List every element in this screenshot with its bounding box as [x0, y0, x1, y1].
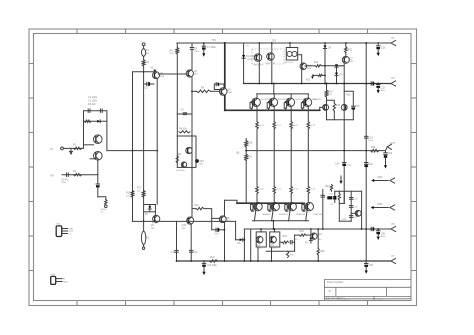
svg-text:CN2: CN2 — [56, 223, 61, 225]
resistor R5 to terminal — [105, 200, 107, 205]
wire output line — [246, 150, 386, 152]
junction dots -V rail — [176, 260, 178, 262]
transistor Q5 input current source — [153, 72, 160, 79]
junction dots rail2 — [258, 83, 260, 85]
svg-text:2SC: 2SC — [350, 61, 355, 63]
svg-text:C11: C11 — [171, 252, 176, 254]
wire box bottom — [339, 220, 351, 222]
connector P2 — [391, 81, 396, 86]
wire fuse column — [143, 66, 145, 221]
svg-text:Title:: Title: — [326, 299, 331, 302]
svg-text:OUT: OUT — [390, 142, 396, 145]
resistor R16 — [131, 191, 134, 198]
resistor R21 on -V rail — [210, 260, 218, 263]
svg-text:2SC: 2SC — [318, 239, 323, 241]
diode D7 — [310, 229, 312, 238]
sheet outer border — [29, 29, 417, 306]
diode D9 on predriver column — [324, 43, 326, 46]
resistor R10 on spreader — [176, 156, 178, 164]
svg-text:R13: R13 — [306, 79, 311, 81]
svg-text:....: .... — [389, 290, 392, 292]
diode D6 — [235, 221, 237, 239]
transistor Q31 output PNP — [273, 194, 275, 203]
resistor R25 protection feed — [295, 234, 300, 236]
resistor R30 emitter 0.22 — [256, 106, 258, 121]
capacitor C4 electrolytic tail — [97, 175, 99, 184]
wire emitter column 1 — [273, 129, 275, 186]
resistor R3 divider — [84, 120, 107, 122]
power flag down at node — [153, 70, 156, 73]
resistor R42 emitter 0.22 — [290, 186, 293, 193]
transistor Q23 output NPN — [307, 94, 309, 98]
svg-text:D2 1N4148: D2 1N4148 — [247, 56, 259, 58]
wire Q3 emitter column — [191, 77, 193, 217]
svg-text:IN: IN — [51, 148, 54, 151]
svg-text:C14: C14 — [215, 233, 220, 235]
ground below C25 — [377, 237, 380, 240]
wire NPN base bus thick — [225, 109, 320, 111]
capacitor C1 — [87, 109, 89, 112]
junction dots top rail — [224, 42, 226, 44]
connector P5 gnd B — [374, 207, 389, 209]
wire feedback bus — [107, 150, 157, 152]
resistor R27 — [330, 185, 332, 191]
svg-text:R27: R27 — [325, 186, 330, 188]
resistor R6 VAS load — [176, 43, 178, 48]
svg-text:R 10k: R 10k — [152, 222, 159, 224]
capacitor C3 — [66, 173, 68, 176]
svg-text:GND: GND — [377, 203, 383, 206]
svg-text:2SC: 2SC — [194, 74, 199, 76]
svg-text:VR1: VR1 — [199, 160, 204, 163]
wire Q5 emitter column — [156, 79, 158, 205]
svg-text:C16: C16 — [368, 163, 373, 166]
svg-text:CN3: CN3 — [50, 274, 55, 276]
wire -V drive column — [243, 229, 245, 261]
svg-text:C23: C23 — [388, 152, 393, 155]
capacitor C22 electrolytic — [377, 83, 379, 85]
svg-text:GND: GND — [377, 176, 383, 179]
trimpot VR1 — [195, 159, 199, 163]
transistor Q21 protection — [311, 233, 317, 239]
protection network box — [335, 190, 362, 192]
transistor Q17 upper driver — [323, 104, 329, 110]
svg-text:15032: 15032 — [257, 247, 264, 249]
transistor Q13 thermal — [271, 43, 273, 84]
resistor R22 feed — [192, 208, 196, 210]
capacitor C11 Q19 collector branch — [176, 221, 178, 261]
capacitor C15 — [365, 135, 368, 137]
resistor R14 driver — [326, 84, 328, 91]
svg-text:C30: C30 — [335, 164, 340, 166]
transistor Q4 VAS — [224, 43, 226, 88]
bias spreader box with VR1 — [177, 113, 192, 115]
diode D3 — [335, 64, 338, 67]
svg-text:Id: 1/1: Id: 1/1 — [376, 300, 383, 302]
transistor Q33 output PNP — [307, 194, 309, 203]
svg-text:C13 100u: C13 100u — [207, 265, 218, 267]
svg-text:R25: R25 — [300, 231, 305, 233]
transistor Q32 output PNP — [290, 194, 292, 203]
ground below C26 — [365, 271, 368, 274]
svg-text:R18: R18 — [347, 95, 352, 97]
svg-text:100n: 100n — [61, 182, 67, 184]
capacitor C26 electrolytic below -V rail — [365, 261, 367, 264]
wire top-left branch — [133, 72, 157, 222]
svg-text:R26: R26 — [320, 251, 325, 253]
svg-text:2SC: 2SC — [226, 220, 231, 222]
current mirror box U1 — [286, 48, 297, 61]
svg-text:R31: R31 — [348, 49, 353, 51]
feedback network box with C1 C2 R3 D1 — [84, 111, 107, 151]
wire Q8 emitter to -V rail — [224, 222, 226, 261]
resistor R21 base — [267, 102, 269, 103]
capacitor C18 column — [322, 190, 324, 230]
wire collector link 2 — [289, 210, 290, 220]
svg-text:R16: R16 — [126, 192, 131, 195]
wire collector link 1 — [272, 210, 273, 220]
wire emitter column 2 — [290, 129, 292, 186]
wire -V bottom rail — [177, 260, 392, 262]
svg-text:C20: C20 — [381, 47, 386, 50]
resistor R12 predrive — [305, 65, 307, 67]
transistor Q11 — [181, 162, 186, 167]
svg-text:Q10 bias: Q10 bias — [176, 170, 186, 172]
wire driver emitter column — [343, 63, 345, 203]
svg-text:2SC5200: 2SC5200 — [312, 99, 322, 101]
capacitor group C27 C28 C29 — [350, 191, 352, 221]
resistor R43 emitter 0.22 — [307, 186, 310, 193]
wire PNP base bus — [225, 200, 238, 203]
svg-text:Q14 Q15: Q14 Q15 — [285, 62, 295, 64]
wire link — [294, 235, 296, 251]
transistor Q16 predriver — [298, 55, 302, 64]
connector P1 +V — [391, 40, 396, 45]
diode D4 — [336, 67, 338, 72]
svg-text:100n: 100n — [368, 140, 374, 142]
capacitor C16 — [365, 162, 368, 164]
svg-text:R3 22k: R3 22k — [88, 103, 96, 106]
wire VAS output to base bus — [224, 95, 226, 110]
ground below C23 — [384, 165, 387, 168]
capacitor C5 base bypass — [144, 83, 154, 85]
svg-text:2SC: 2SC — [182, 228, 187, 230]
wire second drive column — [250, 229, 252, 261]
svg-text:GND: GND — [63, 282, 68, 284]
transistor Q10 spreader — [186, 147, 192, 153]
resistor R20 base — [250, 102, 252, 103]
resistor R22 base — [284, 102, 286, 103]
svg-text:2SC1815: 2SC1815 — [254, 64, 264, 66]
wire collector bus to -V rail — [272, 221, 274, 229]
resistor R40 emitter 0.22 — [256, 186, 259, 193]
wire Q8 collector to PNP bus — [224, 200, 226, 216]
resistor R31 Q7 collector — [345, 43, 347, 47]
svg-text:R19: R19 — [248, 142, 253, 144]
connector P6 -V drive — [391, 226, 396, 231]
svg-text:R9 10k: R9 10k — [179, 128, 187, 131]
resistor R33 emitter 0.22 — [307, 106, 309, 121]
resistor R30 output line — [371, 149, 379, 152]
svg-text:R23: R23 — [283, 236, 288, 238]
transistor Q18 on column — [341, 104, 347, 110]
capacitor C17 — [289, 241, 291, 244]
transistor Q6 — [153, 215, 160, 222]
fuse F2 output — [143, 221, 145, 231]
svg-text:ref: ref — [101, 211, 104, 214]
wire collector link 3 — [306, 210, 307, 220]
transistor Q20 output NPN — [256, 94, 258, 98]
wire driver mid column — [365, 43, 367, 261]
wire pair tail — [97, 160, 99, 175]
capacitor C23 to ground at output — [385, 151, 387, 153]
resistor R31 emitter 0.22 — [273, 106, 275, 121]
capacitor C9 top of spreader — [183, 112, 186, 114]
ground below C20 — [377, 53, 380, 56]
svg-text:TP2: TP2 — [272, 39, 277, 42]
capacitor C19 electrolytic horizontal — [327, 196, 332, 199]
connector CN3 package — [51, 276, 56, 284]
diode D5 bridge — [144, 204, 156, 206]
svg-text:R20: R20 — [248, 157, 253, 159]
wire V+ second rail — [243, 43, 245, 84]
transistor Q21 output NPN — [273, 94, 275, 98]
resistor R26 — [317, 229, 319, 249]
svg-text:Q19: Q19 — [182, 224, 187, 227]
title block — [324, 278, 411, 280]
svg-text:R14: R14 — [328, 91, 333, 94]
wire main lower bus — [133, 220, 236, 222]
connector CN2 package — [56, 226, 62, 237]
wire emitter column 0 — [256, 129, 258, 186]
capacitor C30 100p — [342, 162, 346, 164]
capacitor C10 electrolytic — [344, 91, 353, 106]
resistor R4 — [74, 174, 82, 176]
svg-text:2SA1943: 2SA1943 — [279, 213, 289, 216]
resistor R17 — [142, 191, 145, 198]
transistor Q8 — [219, 216, 226, 223]
transistor Q9 lower driver A in box — [256, 232, 266, 247]
svg-text:2SC: 2SC — [151, 228, 156, 230]
svg-text:C7 100u: C7 100u — [207, 46, 217, 49]
svg-text:C10: C10 — [355, 106, 360, 108]
svg-text:2SA: 2SA — [160, 75, 165, 78]
capacitor C21 on rail 2 — [370, 82, 372, 85]
svg-text:100p: 100p — [346, 165, 352, 167]
svg-text:R12: R12 — [314, 61, 319, 64]
wire base bus to Q17 — [320, 107, 323, 110]
ground at input — [70, 148, 72, 151]
capacitor C13 electrolytic under rail — [203, 260, 205, 262]
capacitor C25 electrolytic — [377, 228, 379, 230]
junction dots -V drive rail — [260, 228, 262, 230]
svg-text:2SA: 2SA — [307, 67, 312, 70]
sheet inner border — [34, 34, 412, 301]
wire box right edge — [361, 191, 363, 229]
capacitor C12 Q19 emitter branch — [190, 224, 192, 261]
connector P3 output — [386, 147, 388, 151]
svg-text:TP1: TP1 — [212, 39, 217, 42]
transistor Q2 input pair lower — [94, 152, 103, 161]
resistor R23 — [280, 241, 282, 243]
wire loop bottom — [327, 119, 354, 121]
transistor Q3 — [186, 70, 193, 77]
svg-text:FB: FB — [51, 174, 55, 177]
capacitor C20 electrolytic on +V rail — [377, 42, 379, 44]
svg-text:2SA: 2SA — [227, 91, 232, 94]
resistor R51 base — [268, 204, 270, 210]
wire predriver column — [324, 49, 326, 84]
svg-text:15032: 15032 — [270, 247, 277, 249]
wire PNP collector bus — [253, 220, 309, 222]
svg-text:R30: R30 — [371, 146, 376, 149]
power arrow mid — [340, 176, 342, 181]
capacitor C6 — [191, 43, 193, 48]
connector P4 gnd A — [374, 180, 388, 182]
svg-text:R22: R22 — [195, 205, 200, 207]
resistor R20 — [245, 154, 248, 161]
svg-text:C26: C26 — [369, 264, 374, 267]
ground below C22 — [377, 90, 380, 93]
transistor Q20 lower driver B in box — [270, 232, 280, 247]
wire emitter column 3 — [307, 129, 309, 186]
svg-text:2SA1943: 2SA1943 — [296, 213, 306, 216]
resistor R24 — [286, 251, 288, 257]
wire +V top rail — [177, 42, 391, 44]
fuse F1 with terminal — [142, 43, 145, 46]
svg-text:2SA1943: 2SA1943 — [262, 213, 272, 216]
diode D2 rail drop — [242, 55, 245, 58]
thermal couple dashed box — [252, 49, 284, 64]
wire -V upper rail — [244, 228, 391, 230]
resistor R15 loop — [327, 100, 335, 103]
capacitor C2 — [99, 109, 101, 112]
connector P7 -V — [391, 258, 396, 263]
wire collector bus feed — [273, 84, 275, 94]
transistor Q7 driver upper — [345, 53, 347, 57]
svg-text:KiCad E.D.A.: KiCad E.D.A. — [338, 299, 351, 302]
svg-text:100n: 100n — [194, 51, 200, 53]
border zone ticks — [76, 29, 78, 34]
resistor R2 — [142, 60, 145, 66]
capacitor C8 in box — [214, 84, 224, 90]
wire NPN collector bus — [257, 93, 309, 95]
svg-text:2SA1943: 2SA1943 — [313, 213, 323, 216]
resistor R8 — [197, 90, 211, 93]
svg-text:Power Amplifier: Power Amplifier — [327, 281, 344, 284]
svg-text:R15: R15 — [336, 105, 341, 107]
capacitor C14 Q8 emitter — [212, 218, 225, 229]
wire to bias terminal — [98, 197, 106, 200]
resistor R53 base — [302, 204, 304, 210]
transistor Q12 thermal — [258, 43, 260, 84]
svg-text:1N4148: 1N4148 — [247, 59, 255, 61]
capacitor C24 on -V rail — [370, 227, 372, 230]
wire — [343, 191, 345, 203]
svg-text:(B): (B) — [236, 152, 239, 154]
svg-text:R21: R21 — [211, 257, 216, 259]
transistor Q30 output PNP — [256, 194, 258, 203]
resistor R52 base — [285, 204, 287, 210]
wire lower loop — [266, 250, 294, 252]
transistor Q19 VAS lower — [187, 217, 194, 224]
transistor Q1 input pair upper — [94, 135, 103, 144]
resistor R1 input series — [74, 147, 82, 149]
wire collector link 0 — [254, 210, 255, 220]
transistor Q23 protection right — [351, 212, 356, 214]
diode D1 — [97, 120, 100, 123]
resistor R32 emitter 0.22 — [290, 106, 292, 121]
transistor Q22 output NPN — [290, 94, 292, 98]
svg-text:C2 100p: C2 100p — [88, 96, 98, 99]
resistor R50 base — [251, 204, 253, 210]
svg-text:C12: C12 — [193, 252, 198, 254]
svg-text:R17: R17 — [137, 187, 142, 190]
resistor R41 emitter 0.22 — [273, 186, 276, 193]
resistor R28 — [338, 191, 340, 193]
wire VAS base feed — [192, 90, 197, 92]
resistor R19 — [245, 139, 247, 141]
capacitor C7 electrolytic to ground — [203, 43, 205, 46]
resistor R13 with flag — [315, 74, 318, 76]
resistor R23 base — [302, 102, 304, 103]
